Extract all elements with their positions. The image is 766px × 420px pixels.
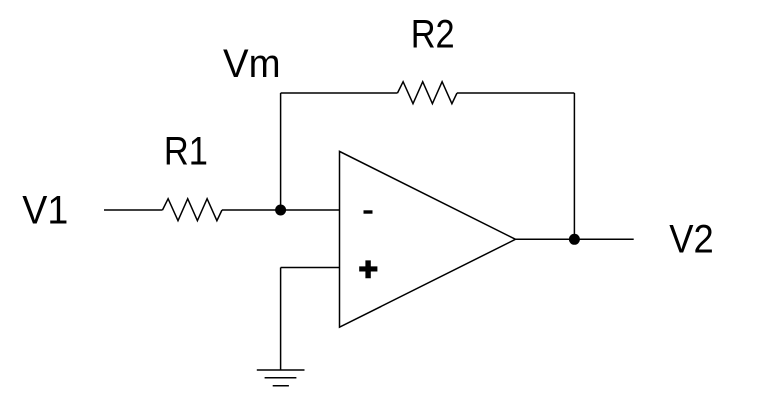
svg-text:Vm: Vm [223, 42, 281, 86]
wire feedback vertical left [280, 93, 282, 210]
svg-text:V2: V2 [669, 217, 714, 261]
plus sign non-inverting input [359, 260, 377, 278]
wire top rail left [281, 92, 398, 94]
svg-text:R1: R1 [164, 129, 208, 173]
wire top rail right [457, 92, 574, 94]
wire non-inverting input [281, 267, 340, 269]
svg-text:V1: V1 [22, 189, 68, 233]
minus sign inverting input [364, 210, 373, 213]
wire feedback vertical right [573, 93, 575, 239]
ground [257, 370, 305, 386]
output node junction dot [569, 234, 580, 245]
wire R1 to node Vm [222, 209, 281, 211]
op-amp U1 [340, 151, 516, 327]
wire to ground [280, 268, 282, 371]
resistor R2 [398, 82, 458, 104]
node Vm junction dot [275, 205, 286, 216]
wire V1 to R1 [104, 209, 163, 211]
wire output [516, 238, 634, 240]
svg-text:R2: R2 [411, 13, 455, 57]
resistor R1 [163, 199, 223, 221]
wire node to op-amp inverting input [281, 209, 340, 211]
